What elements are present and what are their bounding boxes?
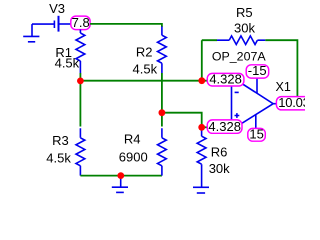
ground (bottom middle) [112, 176, 128, 193]
resistor R3 [46, 128, 85, 175]
resistor R6 [197, 127, 230, 187]
svg-text:R2: R2 [136, 45, 153, 60]
junction dot ground tap [117, 172, 124, 179]
junction dot minus input [198, 77, 205, 84]
svg-text:30k: 30k [209, 161, 230, 176]
svg-text:6900: 6900 [119, 150, 148, 165]
node label 4.328 (plus input) [207, 119, 242, 134]
svg-text:V3: V3 [49, 1, 65, 16]
resistor R1 [55, 30, 85, 82]
wire plus node stub to label [202, 126, 208, 128]
svg-text:7.8: 7.8 [72, 15, 90, 30]
svg-text:OP_207A: OP_207A [212, 49, 266, 63]
node label 10.03 (output) [276, 95, 316, 110]
junction dot node B [159, 109, 166, 116]
wire R2 bottom to node B [161, 73, 163, 127]
node label 4.328 (minus input) [207, 72, 244, 87]
svg-text:4.5k: 4.5k [46, 151, 71, 166]
svg-text:4.5k: 4.5k [55, 56, 80, 71]
negative supply pin [256, 78, 258, 93]
svg-text:4.328: 4.328 [208, 119, 241, 134]
resistor R5 [217, 5, 265, 45]
svg-text:R5: R5 [236, 5, 253, 20]
wire top node to R2 [90, 24, 162, 27]
svg-text:R4: R4 [124, 132, 141, 147]
svg-text:4.5k: 4.5k [133, 61, 158, 76]
svg-text:10.03: 10.03 [278, 95, 305, 110]
svg-text:4.328: 4.328 [209, 72, 242, 87]
svg-text:30k: 30k [234, 21, 255, 36]
op-amp X1 triangle [232, 77, 277, 130]
node label 7.8 (battery + node) [71, 15, 90, 30]
wire R5 left to minus node [202, 40, 217, 80]
ground (bottom right) [193, 187, 209, 193]
wire node B to op-amp plus input [162, 113, 202, 128]
wire bottom (R3 to R4) [80, 175, 161, 177]
svg-text:X1: X1 [276, 80, 291, 94]
wire R5 right to output node [265, 40, 297, 96]
minus input marker [235, 91, 239, 93]
plus input marker [235, 113, 240, 118]
wire node A down to R3 [79, 81, 81, 127]
junction dot node A [77, 78, 84, 85]
resistor R4 [119, 128, 166, 175]
svg-text:-15: -15 [248, 63, 267, 78]
output stub [273, 103, 276, 105]
svg-text:R6: R6 [211, 144, 228, 159]
svg-text:R3: R3 [52, 133, 69, 148]
svg-text:15: 15 [249, 127, 263, 142]
battery V3 [32, 16, 71, 32]
ground (top left) [23, 24, 39, 42]
junction dot plus input [198, 124, 205, 131]
wire node A horizontal (minus input net) [80, 80, 207, 82]
resistor R2 [133, 27, 167, 77]
positive supply pin [255, 114, 257, 128]
supply label -15 [246, 63, 269, 78]
supply label 15 [248, 127, 265, 142]
